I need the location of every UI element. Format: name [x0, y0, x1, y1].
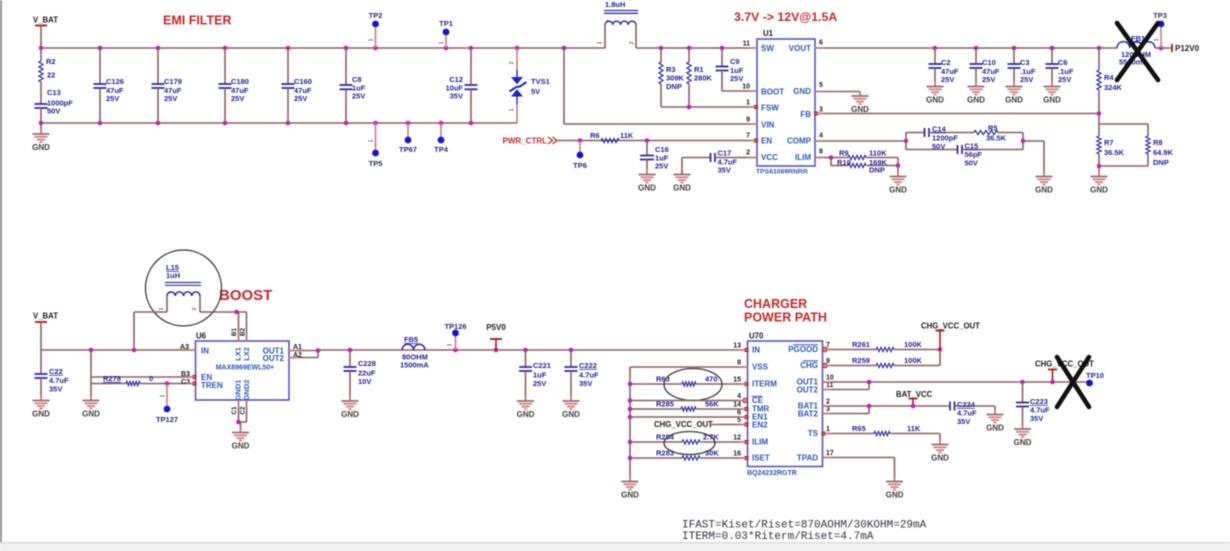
svg-text:1: 1 — [746, 100, 750, 107]
svg-text:C222: C222 — [579, 361, 597, 370]
svg-text:R8: R8 — [1153, 138, 1163, 147]
svg-text:3: 3 — [819, 107, 823, 114]
svg-text:GND: GND — [926, 96, 944, 105]
svg-text:25V: 25V — [941, 75, 954, 84]
capacitor C222 — [569, 348, 574, 353]
svg-text:OUT2: OUT2 — [263, 354, 285, 363]
svg-text:5: 5 — [737, 417, 741, 424]
regulator U6 MAX8969EWL50+ body — [196, 341, 290, 400]
node junctions ground bus — [628, 382, 633, 387]
svg-text:BOOT: BOOT — [761, 88, 784, 97]
svg-text:R2: R2 — [46, 57, 56, 66]
svg-text:VIN: VIN — [761, 121, 775, 130]
svg-text:11: 11 — [826, 382, 834, 389]
svg-text:V_BAT: V_BAT — [33, 312, 58, 321]
ellipse around R63 — [664, 369, 722, 401]
svg-text:VSS: VSS — [752, 363, 769, 372]
wire EN net — [557, 140, 757, 142]
svg-text:6: 6 — [819, 40, 823, 47]
svg-text:GND: GND — [1035, 186, 1053, 195]
svg-text:CHG_VCC_OUT: CHG_VCC_OUT — [921, 322, 980, 331]
svg-text:EMI FILTER: EMI FILTER — [163, 14, 232, 28]
svg-text:PGOOD: PGOOD — [788, 345, 818, 354]
wire ILIM net — [815, 157, 848, 159]
svg-text:C179: C179 — [164, 77, 182, 86]
capacitor C15 — [906, 149, 958, 151]
wire R9 R10 to ground — [896, 163, 901, 168]
svg-text:R259: R259 — [852, 356, 870, 365]
capacitor C9 — [721, 48, 723, 67]
svg-text:GND: GND — [793, 87, 811, 96]
svg-text:2: 2 — [746, 150, 750, 157]
testpoint TP5 — [375, 123, 377, 150]
svg-text:TREN: TREN — [201, 381, 223, 390]
resistor R259 — [823, 365, 877, 367]
svg-text:FB5: FB5 — [404, 335, 418, 344]
wire LX1 drop — [238, 312, 240, 341]
svg-text:PWR_CTRL: PWR_CTRL — [503, 137, 548, 146]
svg-text:GND: GND — [1014, 438, 1032, 447]
wire FB net — [815, 113, 1099, 115]
svg-text:ILIM: ILIM — [752, 438, 768, 447]
svg-text:R9: R9 — [839, 149, 849, 158]
wire VOUT rail — [815, 47, 1117, 49]
svg-text:U6: U6 — [196, 332, 207, 341]
wire EN pull-up vertical — [90, 350, 92, 400]
svg-text:35V: 35V — [49, 385, 62, 394]
svg-text:TP1: TP1 — [439, 19, 453, 28]
svg-text:GND: GND — [1043, 96, 1061, 105]
svg-text:25V: 25V — [164, 94, 177, 103]
svg-text:C3: C3 — [1020, 58, 1030, 67]
page bottom strip — [0, 543, 1230, 551]
capacitor C13 — [40, 97, 42, 104]
wire COMP net — [815, 140, 906, 142]
power tap P5V0 — [494, 348, 499, 353]
svg-text:FB: FB — [800, 110, 811, 119]
svg-text:GND: GND — [232, 442, 250, 451]
svg-text:1: 1 — [447, 343, 453, 346]
svg-text:5: 5 — [819, 82, 823, 89]
resistor R261 — [823, 349, 877, 351]
svg-text:TPAD: TPAD — [797, 454, 818, 463]
svg-text:36.5K: 36.5K — [1104, 148, 1125, 157]
svg-text:11: 11 — [743, 41, 751, 48]
wire L15 to LX pins — [200, 311, 247, 313]
svg-text:C2: C2 — [240, 406, 247, 415]
testpoint TP127 — [166, 384, 168, 406]
svg-text:P12V0: P12V0 — [1175, 44, 1200, 53]
svg-text:25V: 25V — [1058, 75, 1071, 84]
svg-text:C10: C10 — [982, 58, 996, 67]
svg-text:8: 8 — [819, 149, 823, 156]
ground below C228 — [349, 396, 351, 401]
svg-text:MAX8969EWL50+: MAX8969EWL50+ — [216, 365, 275, 372]
svg-text:2: 2 — [826, 399, 830, 406]
svg-text:R6: R6 — [590, 131, 600, 140]
svg-text:25V: 25V — [1020, 75, 1033, 84]
resistor R3 — [660, 48, 662, 62]
wire EN1 net — [630, 416, 748, 418]
wire VSS net — [630, 366, 748, 368]
svg-text:B1: B1 — [231, 327, 238, 336]
svg-text:C22: C22 — [49, 367, 63, 376]
ground left of C17 — [681, 170, 683, 175]
wire LX2 drop — [246, 312, 248, 341]
svg-text:11K: 11K — [620, 131, 634, 140]
ground below TPAD — [894, 477, 896, 482]
svg-text:8: 8 — [737, 360, 741, 367]
capacitor C17 — [681, 158, 683, 175]
capacitor C22 — [40, 350, 42, 374]
svg-text:14: 14 — [733, 402, 741, 409]
wire FSW net — [661, 106, 757, 108]
wire EN2 net — [710, 424, 748, 426]
svg-text:GND2: GND2 — [242, 380, 251, 401]
ground below C222 — [570, 396, 572, 401]
svg-text:TS: TS — [808, 429, 819, 438]
wire EN to U6 — [91, 376, 194, 378]
svg-text:TPS61089RNRR: TPS61089RNRR — [756, 169, 808, 176]
svg-text:35V: 35V — [450, 92, 463, 101]
svg-text:3.7V -> 12V@1.5A: 3.7V -> 12V@1.5A — [734, 10, 837, 24]
svg-text:10: 10 — [742, 84, 750, 91]
wire BAT net — [823, 405, 951, 407]
svg-text:5V: 5V — [531, 87, 540, 96]
wire boost input rail — [41, 349, 196, 351]
svg-text:ISET: ISET — [752, 454, 770, 463]
capacitor C14 — [906, 132, 925, 134]
svg-text:1: 1 — [1154, 38, 1160, 41]
svg-text:35V: 35V — [957, 417, 970, 426]
circle around L15 — [146, 250, 222, 326]
svg-text:0: 0 — [149, 374, 153, 383]
testpoint TP126 — [453, 348, 458, 353]
capacitor C8 — [345, 48, 347, 85]
svg-text:1: 1 — [826, 426, 830, 433]
capacitor C10 — [975, 48, 977, 64]
svg-text:GND: GND — [886, 491, 904, 500]
svg-text:1uH: 1uH — [166, 271, 180, 280]
svg-text:2: 2 — [629, 41, 635, 44]
svg-text:3: 3 — [826, 406, 830, 413]
svg-text:25V: 25V — [982, 75, 995, 84]
svg-text:OUT2: OUT2 — [797, 386, 819, 395]
resistor R284 — [630, 441, 682, 443]
net label CHG_VCC_OUT (pullup) — [938, 347, 943, 352]
svg-text:C2: C2 — [941, 58, 951, 67]
ground below C16 — [646, 170, 648, 175]
svg-text:U1: U1 — [763, 29, 774, 38]
svg-text:25V: 25V — [655, 162, 668, 171]
svg-text:C180: C180 — [231, 77, 249, 86]
svg-text:470: 470 — [705, 375, 718, 384]
svg-text:9: 9 — [746, 117, 750, 124]
wire VIN drop — [563, 48, 565, 124]
ground below EN vertical — [90, 396, 92, 401]
svg-text:TVS1: TVS1 — [531, 77, 550, 86]
svg-text:GND: GND — [32, 410, 50, 419]
wire TPAD net — [823, 457, 895, 459]
svg-text:10V: 10V — [358, 377, 371, 386]
svg-text:64.9K: 64.9K — [1153, 148, 1174, 157]
svg-text:R5: R5 — [988, 124, 998, 133]
svg-text:1: 1 — [159, 307, 165, 310]
svg-text:C17: C17 — [718, 149, 732, 158]
wire U6 GND pins down — [238, 400, 240, 422]
svg-text:V_BAT: V_BAT — [33, 16, 58, 25]
svg-text:BOOST: BOOST — [219, 287, 272, 304]
svg-text:GND: GND — [341, 410, 359, 419]
svg-text:GND: GND — [986, 424, 1004, 433]
capacitor C160 — [287, 48, 289, 84]
capacitor C16 — [645, 138, 650, 143]
svg-text:25V: 25V — [533, 379, 546, 388]
capacitor C180 — [224, 48, 226, 84]
svg-text:1500mA: 1500mA — [400, 361, 429, 370]
wire OUT1 from U6 — [289, 350, 318, 352]
svg-text:CHG: CHG — [800, 361, 818, 370]
svg-text:TP5: TP5 — [369, 159, 383, 168]
svg-text:GND: GND — [638, 184, 656, 193]
svg-text:12: 12 — [733, 435, 741, 442]
svg-text:22: 22 — [47, 71, 55, 80]
wire BAT2 merge — [823, 413, 870, 415]
svg-text:1: 1 — [597, 41, 603, 44]
svg-text:4: 4 — [737, 393, 741, 400]
svg-text:10: 10 — [826, 375, 834, 382]
svg-text:25V: 25V — [730, 74, 743, 83]
svg-text:GND: GND — [82, 410, 100, 419]
resistor R4 — [1098, 48, 1100, 70]
svg-text:C160: C160 — [294, 77, 312, 86]
svg-text:BAT2: BAT2 — [798, 410, 819, 419]
svg-text:13: 13 — [733, 343, 741, 350]
wire GND pin5 stub — [815, 91, 860, 93]
pin stubs U1 — [748, 47, 757, 49]
wire CE net — [630, 400, 743, 402]
svg-text:25V: 25V — [352, 92, 365, 101]
svg-text:GND: GND — [889, 186, 907, 195]
ground below U6 — [240, 428, 242, 433]
svg-text:1: 1 — [369, 139, 375, 142]
ground below R65 — [939, 440, 941, 445]
X mark over output — [1057, 357, 1089, 407]
svg-text:30K: 30K — [705, 449, 719, 458]
ellipse around R284 — [664, 432, 715, 455]
node junctions SW — [659, 46, 664, 51]
ground below C13 — [40, 123, 42, 134]
svg-text:GND: GND — [517, 410, 535, 419]
resistor R7 — [1098, 124, 1100, 136]
wire SW segment — [636, 47, 757, 49]
capacitor C223 — [1020, 380, 1025, 385]
svg-text:GND: GND — [673, 184, 691, 193]
ground below C221 — [525, 396, 527, 401]
resistor R65 — [823, 433, 875, 435]
capacitor C126 — [99, 48, 101, 84]
svg-text:SW: SW — [761, 44, 774, 53]
ground below C10 — [975, 82, 977, 87]
svg-text:324K: 324K — [1104, 83, 1123, 92]
svg-text:1: 1 — [439, 41, 445, 44]
wire L15 left leg — [133, 312, 135, 350]
resistor R9 — [848, 155, 866, 159]
svg-text:GND: GND — [931, 454, 949, 463]
resistor R7 / R8 divider wires — [1098, 114, 1100, 125]
svg-text:2: 2 — [509, 61, 515, 64]
ground below COMP network — [1043, 172, 1045, 177]
svg-text:C228: C228 — [358, 359, 376, 368]
svg-text:56K: 56K — [705, 400, 719, 409]
wire 5V rail to charger — [318, 349, 748, 351]
svg-text:VCC: VCC — [761, 153, 778, 162]
svg-text:DNP: DNP — [666, 82, 682, 91]
svg-text:CHARGER: CHARGER — [744, 297, 807, 311]
svg-text:TP6: TP6 — [573, 161, 587, 170]
ground below R7 — [1098, 172, 1100, 177]
resistor R63 — [630, 383, 682, 385]
wire OUT2 from U6 — [289, 357, 318, 359]
ground at U1 GND pin — [859, 91, 861, 96]
capacitor C228 — [348, 348, 353, 353]
svg-text:6: 6 — [737, 410, 741, 417]
resistor R10 — [830, 158, 832, 166]
svg-text:35V: 35V — [1030, 414, 1043, 423]
ground below C223 — [1022, 424, 1024, 429]
wire OUT2 merge — [823, 389, 870, 391]
svg-text:GND: GND — [562, 410, 580, 419]
svg-text:R283: R283 — [656, 449, 674, 458]
svg-text:IFAST=Kiset/Riset=870AOHM/30KO: IFAST=Kiset/Riset=870AOHM/30KOHM=29mA — [682, 520, 927, 532]
wire top rail — [41, 47, 605, 49]
pin stubs U70 — [739, 349, 748, 351]
wire V_BAT stem — [40, 26, 42, 49]
wire OUT net — [823, 381, 1087, 383]
svg-text:R261: R261 — [852, 340, 870, 349]
testpoint TP67 — [407, 123, 409, 137]
svg-text:1: 1 — [509, 108, 515, 111]
wire divider bottom — [1099, 165, 1148, 167]
svg-text:R278: R278 — [103, 374, 121, 383]
svg-text:IN: IN — [752, 346, 760, 355]
svg-text:TP127: TP127 — [156, 415, 178, 424]
svg-text:TP67: TP67 — [399, 145, 417, 154]
svg-text:7: 7 — [746, 133, 750, 140]
capacitor C2 — [934, 48, 936, 64]
wire COMP to ground — [1021, 139, 1026, 144]
svg-text:GND: GND — [32, 143, 50, 152]
power tap P12V0 — [1171, 47, 1173, 49]
wire ground bus vertical — [629, 367, 631, 481]
svg-text:C13: C13 — [47, 88, 61, 97]
svg-text:FSW: FSW — [761, 104, 779, 113]
svg-text:POWER PATH: POWER PATH — [744, 311, 827, 325]
resistor R5 — [974, 130, 998, 134]
wire bottom rail — [41, 122, 517, 124]
svg-text:36.5K: 36.5K — [986, 134, 1007, 143]
ground below bus — [629, 477, 631, 482]
svg-text:25V: 25V — [106, 94, 119, 103]
svg-text:CHG_VCC_OUT: CHG_VCC_OUT — [654, 420, 713, 429]
svg-text:11K: 11K — [907, 424, 921, 433]
svg-text:EN2: EN2 — [752, 421, 768, 430]
capacitor C3 — [1013, 48, 1015, 64]
svg-text:280K: 280K — [694, 74, 713, 83]
svg-text:16: 16 — [733, 451, 741, 458]
svg-text:COMP: COMP — [787, 137, 812, 146]
svg-text:17: 17 — [826, 450, 834, 457]
svg-text:DNP: DNP — [869, 166, 885, 175]
svg-text:50V: 50V — [47, 107, 60, 116]
svg-text:GND: GND — [1090, 186, 1108, 195]
svg-text:15: 15 — [733, 377, 741, 384]
svg-text:IN: IN — [201, 347, 209, 356]
svg-text:TP2: TP2 — [369, 11, 383, 20]
svg-text:R10: R10 — [837, 158, 851, 167]
node junctions bottom rail — [39, 121, 44, 126]
svg-text:ITERM=0.03*Riterm/Riset=4.7mA: ITERM=0.03*Riterm/Riset=4.7mA — [682, 531, 874, 543]
svg-text:GND: GND — [967, 96, 985, 105]
ground below C3 — [1013, 82, 1015, 87]
svg-text:TP126: TP126 — [444, 322, 466, 331]
resistor R8 — [1147, 124, 1149, 136]
resistor R2 — [40, 48, 42, 61]
svg-text:R65: R65 — [852, 424, 866, 433]
page left border — [0, 0, 2, 542]
resistor R6 — [601, 138, 619, 142]
svg-text:35V: 35V — [579, 379, 592, 388]
svg-text:C6: C6 — [1058, 58, 1068, 67]
svg-text:C126: C126 — [106, 77, 124, 86]
svg-text:2: 2 — [192, 307, 198, 310]
svg-text:C3: C3 — [181, 379, 190, 386]
svg-text:DNP: DNP — [1153, 158, 1169, 167]
svg-text:1: 1 — [160, 394, 166, 397]
svg-text:1: 1 — [369, 38, 375, 41]
svg-text:25V: 25V — [231, 94, 244, 103]
svg-text:LX2: LX2 — [242, 347, 251, 361]
svg-text:TP10: TP10 — [1086, 371, 1104, 380]
svg-text:C221: C221 — [533, 361, 551, 370]
capacitor C224 — [950, 402, 955, 411]
svg-text:BQ24232RGTR: BQ24232RGTR — [747, 470, 797, 477]
capacitor C179 — [157, 48, 159, 84]
svg-text:ITERM: ITERM — [752, 380, 777, 389]
svg-text:C14: C14 — [932, 125, 947, 134]
svg-text:C1: C1 — [231, 406, 238, 415]
svg-text:R4: R4 — [1104, 73, 1114, 82]
testpoint TP10 — [1086, 380, 1093, 387]
TVS diode TVS1 — [516, 48, 518, 70]
ground below C6 — [1051, 82, 1053, 87]
svg-text:R285: R285 — [656, 400, 674, 409]
op-amp U1 TPS61089RNRR body — [757, 39, 815, 166]
resistor R285 — [630, 408, 681, 410]
svg-text:GND: GND — [621, 491, 639, 500]
pin stubs U6 — [187, 349, 196, 351]
svg-text:4: 4 — [819, 133, 823, 140]
capacitor C12 — [470, 48, 472, 85]
wire V_BAT stem boost — [40, 322, 42, 350]
ground below R9 R10 — [897, 172, 899, 177]
svg-text:1.8uH: 1.8uH — [605, 0, 625, 9]
testpoint TP6 — [579, 141, 581, 153]
wire R65 to ground — [939, 434, 941, 445]
svg-text:ILIM: ILIM — [795, 153, 811, 162]
svg-text:110K: 110K — [869, 149, 887, 158]
ground below C2 — [934, 82, 936, 87]
